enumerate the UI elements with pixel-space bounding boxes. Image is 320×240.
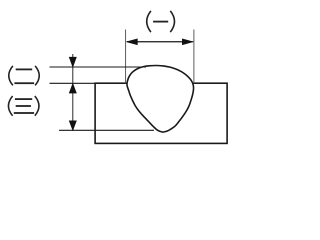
vertical dimension line for (二) and (三) — [72, 54, 74, 130]
plate (base metal rectangle) — [95, 83, 227, 143]
arrowhead left — [127, 39, 138, 45]
arrowhead down onto crown line — [69, 57, 76, 67]
dimension line (一) horizontal with arrowheads — [127, 41, 193, 43]
arrowhead down onto root line — [69, 121, 76, 130]
extension line, right edge of bead width dim — [193, 30, 195, 84]
label (三) middle bar — [16, 105, 31, 107]
label (一) left paren — [147, 11, 151, 32]
label (二) bottom bar — [14, 82, 34, 84]
arrowhead right — [182, 39, 193, 45]
extension line at plate surface level (二 bottom / 三 top) — [50, 82, 97, 84]
weld bead (nugget cross-section, white fill over plate) — [127, 66, 194, 133]
label (三) left paren — [8, 96, 12, 116]
label (二) right paren — [35, 66, 39, 86]
arrowhead up onto surface line — [69, 84, 76, 93]
label (三) right paren — [35, 96, 39, 116]
label (三) top bar — [15, 98, 32, 100]
label (二) top bar — [16, 69, 33, 71]
label (一) right paren — [170, 11, 174, 32]
extension line at bead crown level (二 top) — [50, 66, 147, 68]
extension line, left edge of bead width dim — [125, 30, 127, 84]
label (三) bottom bar — [14, 112, 34, 114]
label (二) left paren — [9, 66, 13, 86]
label (一) bar — [153, 21, 168, 23]
extension line at weld root level (三 bottom) — [59, 129, 154, 131]
